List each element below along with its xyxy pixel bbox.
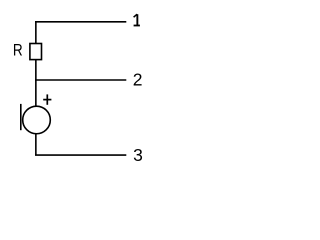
svg-text:R: R [13, 42, 23, 60]
svg-text:2: 2 [133, 70, 143, 90]
svg-text:3: 3 [133, 145, 143, 165]
